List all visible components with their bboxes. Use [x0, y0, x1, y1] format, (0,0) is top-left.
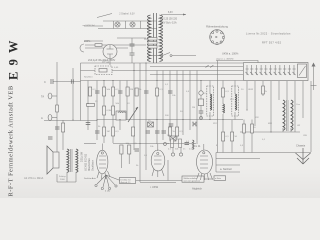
wire: an-UKW feed line	[83, 25, 104, 27]
label: voltage taps	[160, 19, 178, 25]
capacitor: antenna C	[44, 79, 53, 84]
wire: transformer taps	[161, 12, 186, 16]
title text VEB E9W (left margin, rotated)	[7, 39, 21, 197]
resistor between V1 and V2 b	[128, 145, 131, 154]
trimmer at right edge	[311, 63, 317, 91]
svg-text:Drehko mit: Drehko mit	[121, 178, 131, 181]
transformer T1 core	[154, 13, 157, 63]
resistor column x223	[221, 81, 224, 120]
bottom bus wires	[84, 144, 196, 183]
IF transformer can 2	[232, 81, 239, 120]
resistor in oscillator section	[262, 86, 265, 94]
diode pair glyphs	[193, 122, 197, 127]
capacitor cluster row 3	[95, 131, 166, 133]
svg-text:1M: 1M	[167, 135, 170, 137]
svg-text:Lizenz Nr.2022 · Stromlaufpl: Lizenz Nr.2022 · Stromlaufplan	[246, 32, 291, 36]
svg-text:2x0,1µF 30+30µF 350V: 2x0,1µF 30+30µF 350V	[88, 58, 116, 62]
wires between V1 and V2	[121, 145, 146, 182]
svg-text:1M: 1M	[107, 131, 110, 133]
svg-text:0,5M: 0,5M	[189, 149, 194, 151]
resistor block: voltage selector	[144, 38, 157, 49]
svg-text:2 Skalenl. 6,3V: 2 Skalenl. 6,3V	[119, 13, 135, 15]
node: dial lamp rail bottom	[98, 28, 157, 30]
label box Drehko	[120, 178, 136, 184]
svg-text:Antrieb 4:1: Antrieb 4:1	[121, 181, 132, 184]
resistor row 3	[103, 127, 179, 136]
wire: vertical x217.5	[217, 61, 219, 153]
label box Wellenschalter	[182, 176, 204, 182]
svg-text:0,5M: 0,5M	[107, 110, 112, 112]
wires descending from coil pack	[247, 81, 311, 152]
wires near label box	[136, 160, 213, 181]
svg-text:an UKW-Teil: an UKW-Teil	[83, 25, 96, 27]
tube V1 (UCH11) envelope	[97, 144, 108, 174]
svg-text:C: C	[44, 80, 46, 84]
band switch wafer	[95, 175, 132, 190]
wire: oscillator bottom	[240, 128, 300, 132]
svg-text:Feldsp.: Feldsp.	[59, 176, 67, 178]
svg-text:Netzfilter: Netzfilter	[84, 76, 93, 79]
svg-text:2000: 2000	[60, 179, 66, 181]
antenna input vertical wires	[53, 62, 81, 120]
wire: dial cord diagonal	[97, 14, 112, 18]
tube V2 (UBF11) envelope	[151, 144, 165, 171]
svg-text:Wellenschalter: Wellenschalter	[184, 177, 198, 180]
svg-text:UKW a. 100%: UKW a. 100%	[222, 52, 239, 56]
oscillator coil L1	[283, 100, 285, 130]
transformer T1 primary winding	[148, 15, 151, 61]
svg-text:TA: TA	[41, 95, 44, 99]
svg-text:240V Sich. 0,5A: 240V Sich. 0,5A	[160, 22, 177, 25]
svg-text:UCH11 ECH11: UCH11 ECH11	[84, 153, 88, 171]
tube V1 pins	[97, 171, 110, 179]
components above speaker	[48, 123, 65, 139]
svg-text:A: A	[41, 116, 43, 120]
tube V3 pins	[197, 173, 213, 180]
svg-text:Röhrenbestückung: Röhrenbestückung	[206, 25, 228, 29]
oscillator coil L2	[291, 100, 293, 130]
jack: ground socket	[41, 115, 57, 121]
bus: upper horizontals	[81, 63, 244, 121]
coupling components between V2 V3	[164, 139, 194, 156]
node: dial lamp rail top	[103, 20, 156, 22]
potentiometer arrow	[128, 107, 138, 122]
svg-text:E 9 W: E 9 W	[7, 39, 21, 80]
svg-text:Chassis: Chassis	[296, 144, 306, 148]
jack: antenna socket	[41, 93, 57, 99]
capacitor C-el 2	[130, 53, 135, 55]
svg-text:UCL 11: UCL 11	[192, 144, 201, 148]
svg-text:110 125 150 220: 110 125 150 220	[160, 19, 178, 21]
output transformer core	[71, 149, 73, 172]
output transformer winding a	[67, 149, 69, 172]
IF transformer can 1	[207, 81, 214, 120]
connector: mains input plug	[80, 39, 92, 52]
capacitor C-el 1	[130, 44, 135, 46]
svg-text:Drehko-Antr.: Drehko-Antr.	[84, 177, 97, 180]
tube socket chart circle	[210, 30, 225, 45]
svg-text:i. UKW: i. UKW	[150, 185, 159, 189]
bottom-right nested wires	[216, 153, 311, 173]
rectifier tube UY11	[102, 45, 117, 64]
tube V2 pins	[152, 169, 164, 177]
svg-text:2M: 2M	[130, 89, 133, 91]
svg-text:Abgleich: Abgleich	[192, 187, 203, 191]
coil pack coils	[246, 64, 307, 78]
svg-text:a.Netz: a.Netz	[215, 177, 221, 180]
resistor row 2	[87, 104, 115, 116]
svg-text:2M: 2M	[192, 107, 195, 109]
capacitor between V1 and V2	[135, 149, 140, 151]
extra labels middle	[84, 61, 308, 168]
switch: mains switch	[150, 53, 196, 57]
svg-text:4 Uhr: 4 Uhr	[105, 190, 111, 193]
coupling cap with arrows on top bus	[206, 58, 234, 68]
small label right	[214, 176, 226, 181]
svg-text:Mischröhre: Mischröhre	[87, 158, 91, 171]
svg-text:202Ω 5W: 202Ω 5W	[81, 151, 84, 162]
value labels sprinkle	[59, 89, 300, 181]
resistor row 1	[89, 87, 159, 96]
transformer T1 secondary winding	[160, 15, 163, 61]
wires: speaker section	[24, 120, 97, 182]
svg-text:RFT 557 4/52: RFT 557 4/52	[262, 41, 282, 45]
svg-text:von vorn gesehen: von vorn gesehen	[184, 179, 201, 182]
svg-text:abgest. a. 468kHz: abgest. a. 468kHz	[216, 58, 234, 61]
svg-text:a. Netzteil: a. Netzteil	[220, 167, 232, 171]
resistors above bottom-right	[222, 120, 254, 153]
wire: filter cap connections	[110, 38, 146, 65]
output transformer winding b	[76, 149, 78, 172]
long verticals center	[86, 63, 197, 150]
tube V1 label	[84, 153, 95, 171]
lamp La2	[130, 22, 135, 27]
AM detector column	[198, 81, 203, 120]
coil pack box (band filter assembly)	[216, 61, 308, 81]
capacitor row 1	[95, 91, 173, 93]
svg-text:Osz: Osz	[296, 104, 300, 106]
ground symbol	[296, 144, 311, 165]
wire: lamp rail verticals	[114, 21, 141, 29]
component: line filter dashed box	[95, 66, 112, 75]
svg-text:6,3V: 6,3V	[168, 12, 173, 14]
lamp La1	[115, 22, 120, 27]
tube V3 (UCL11) envelope	[192, 144, 213, 174]
choke Sp box	[116, 111, 126, 120]
resistor between V1 and V2 a	[120, 145, 123, 154]
wire: mains to transformer	[84, 41, 146, 48]
bottom components text row	[168, 149, 194, 151]
svg-text:R-F-T Fernmeldewerk Arnstadt V: R-F-T Fernmeldewerk Arnstadt VEB	[8, 85, 15, 196]
svg-text:mit UY11 u. 90mA: mit UY11 u. 90mA	[24, 177, 44, 180]
speaker cone	[47, 146, 59, 174]
svg-text:Oszillator: Oszillator	[91, 160, 95, 171]
trimmer caps bottom	[148, 122, 177, 141]
junction dots	[72, 62, 271, 144]
